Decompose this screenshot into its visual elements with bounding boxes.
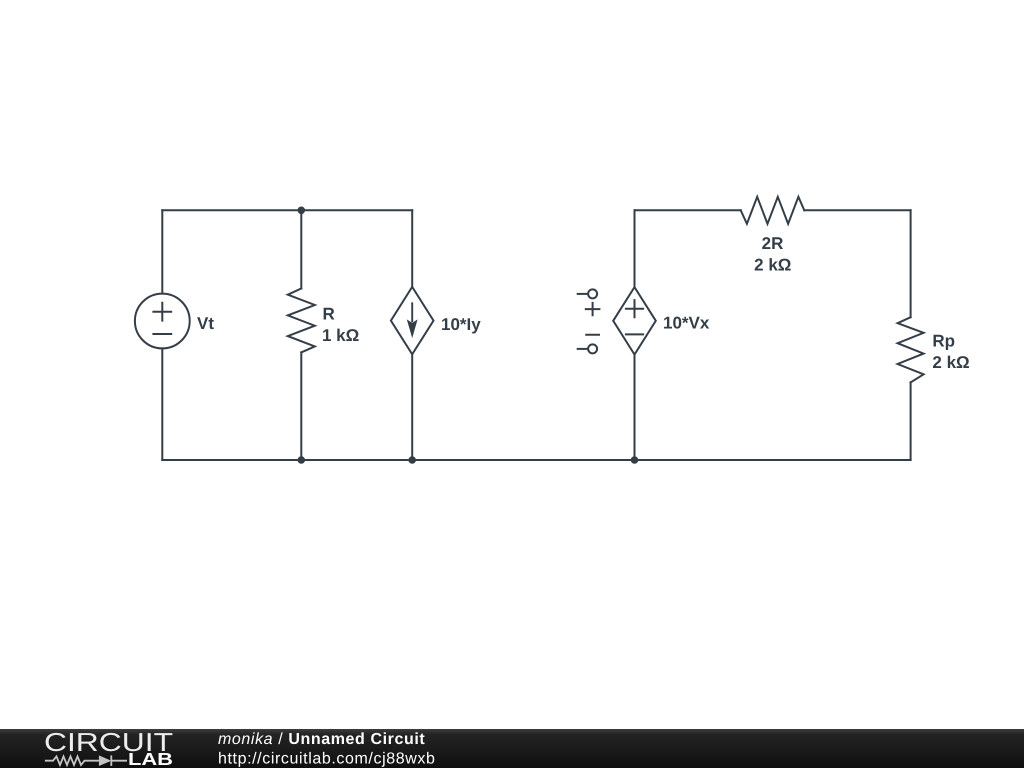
svg-text:2R: 2R [762,234,784,253]
terminal polarity plus and minus marks [586,303,600,335]
svg-text:R: R [323,304,335,323]
voltage source Vt circle [135,294,190,349]
terminal Vx- circle with lead [588,344,597,353]
wire top-left horizontal (node A) [162,209,412,211]
wire bottom ground rail horizontal [162,459,910,461]
svg-text:10*Iy: 10*Iy [441,315,481,334]
junction dot ground rail at R bottom [298,456,306,464]
wire Iy source branch vertical [411,210,413,460]
footer bar [0,729,1024,768]
svg-text:Vt: Vt [197,314,214,333]
wire Vx source branch vertical [634,210,636,460]
wire top-right horizontal (node B) [635,209,911,211]
svg-text:LAB: LAB [128,749,173,768]
terminal Vx+ circle with lead [588,289,597,298]
svg-text:1 kΩ: 1 kΩ [322,326,359,345]
current source arrow shaft [411,303,413,321]
voltage source 10*Vx plus and minus marks [626,300,643,334]
svg-text:Rp: Rp [932,332,955,351]
dependent voltage source 10*Vx diamond [613,287,656,354]
svg-text:2 kΩ: 2 kΩ [932,353,969,372]
junction dot node A at R top [298,207,306,215]
junction dot ground rail at Vx bottom [631,456,639,464]
logo diode triangle [99,755,111,766]
voltage source Vt plus and minus marks [153,303,171,334]
wire right vertical Rp branch [910,210,912,460]
svg-text:monika / Unnamed Circuit: monika / Unnamed Circuit [218,731,425,748]
junction dot ground rail at Iy bottom [408,456,416,464]
svg-text:2 kΩ: 2 kΩ [754,256,791,275]
svg-text:http://circuitlab.com/cj88wxb: http://circuitlab.com/cj88wxb [218,751,435,768]
resistor Rp zigzag vertical [898,317,924,382]
resistor 2R zigzag horizontal [741,197,805,224]
logo diode cathode bar and wire [111,755,127,766]
svg-text:10*Vx: 10*Vx [663,314,710,333]
resistor R zigzag [288,289,315,353]
wire left vertical Vt branch [161,210,163,460]
logo resistor zigzag [45,755,127,766]
dependent current source 10*Iy diamond [391,287,434,354]
wire R branch vertical [300,210,302,460]
current source arrowhead [407,319,418,338]
